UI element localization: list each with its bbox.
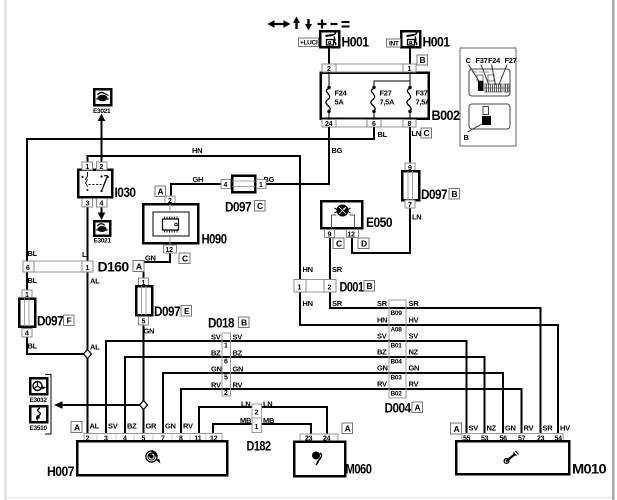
svg-text:D097: D097 bbox=[421, 187, 447, 202]
svg-text:H001: H001 bbox=[342, 35, 370, 50]
svg-text:4: 4 bbox=[100, 201, 104, 208]
B002 internal link pin2 to fuse F24 bbox=[328, 72, 330, 86]
svg-text:GN: GN bbox=[377, 364, 388, 373]
svg-text:BZ: BZ bbox=[233, 349, 243, 358]
svg-text:GN: GN bbox=[505, 424, 516, 433]
wire SV H007-3 to M010-55 bbox=[106, 341, 467, 433]
svg-text:GR: GR bbox=[146, 422, 158, 431]
svg-text:H090: H090 bbox=[202, 232, 227, 247]
svg-text:B: B bbox=[452, 189, 458, 199]
svg-text:BZ: BZ bbox=[211, 349, 221, 358]
wire arrow I030-4 to ground E3021 lower bbox=[100, 207, 102, 213]
wire SR E050-9 to D001-2 bbox=[329, 237, 331, 279]
svg-text:RV: RV bbox=[377, 380, 387, 389]
buzzer M060 bbox=[294, 434, 345, 476]
svg-text:GN: GN bbox=[145, 254, 156, 263]
D182 wire labels bbox=[240, 400, 275, 426]
connector D004 (inline 6-way) bbox=[389, 300, 406, 398]
svg-text:SR: SR bbox=[409, 299, 420, 308]
svg-text:SV: SV bbox=[211, 333, 221, 342]
svg-text:2: 2 bbox=[224, 390, 228, 397]
fuse F27 7,5A bbox=[371, 86, 395, 113]
svg-text:B: B bbox=[464, 133, 470, 142]
wire GN H090-12 to D097E-1 bbox=[144, 252, 171, 278]
svg-text:GN: GN bbox=[409, 364, 420, 373]
ignition switch M010 bbox=[456, 434, 569, 475]
svg-text:C: C bbox=[424, 128, 430, 138]
svg-text:MB: MB bbox=[240, 416, 252, 425]
svg-text:F27: F27 bbox=[380, 89, 392, 98]
ground E3021 upper bbox=[93, 89, 111, 115]
tag C (D097C) bbox=[255, 201, 266, 212]
svg-text:LN: LN bbox=[263, 400, 272, 409]
svg-text:C: C bbox=[182, 254, 188, 264]
control unit H090 bbox=[143, 196, 198, 254]
svg-text:B04: B04 bbox=[391, 359, 403, 366]
svg-text:RV: RV bbox=[409, 380, 419, 389]
wire GN/GR D097E-5 to H007-5 bbox=[142, 325, 144, 433]
svg-text:SV: SV bbox=[469, 424, 479, 433]
wire elbow I030-1 to HN junction bbox=[88, 156, 102, 162]
svg-text:B01: B01 bbox=[391, 343, 403, 350]
svg-text:E3510: E3510 bbox=[30, 425, 48, 432]
svg-text:SV: SV bbox=[377, 332, 387, 341]
svg-text:B: B bbox=[420, 55, 426, 65]
B002 internal link pin1 to fuses F37/F27 bbox=[374, 72, 410, 86]
svg-text:L: L bbox=[82, 250, 87, 259]
svg-text:F37: F37 bbox=[476, 56, 488, 65]
svg-text:D001: D001 bbox=[340, 280, 365, 295]
fuse F24 5A bbox=[326, 86, 348, 113]
svg-text:B02: B02 bbox=[391, 391, 403, 398]
label INT bbox=[387, 39, 401, 47]
earth group bracket bbox=[45, 375, 51, 435]
label +LUCI bbox=[299, 38, 319, 47]
D004 wire labels bbox=[377, 299, 419, 389]
svg-text:AL: AL bbox=[90, 422, 100, 431]
svg-text:SR: SR bbox=[332, 265, 343, 274]
svg-text:A: A bbox=[415, 403, 421, 413]
svg-text:D: D bbox=[361, 239, 367, 249]
svg-text:A: A bbox=[345, 424, 351, 434]
wire HN junction to D001-1 bbox=[102, 156, 301, 279]
tag A (M060) bbox=[342, 423, 353, 434]
svg-text:A: A bbox=[454, 424, 460, 434]
B002 internal links fuse bottoms to pins 24,6,8 bbox=[329, 113, 410, 120]
wire GN H007-7 to M010-56 bbox=[163, 373, 503, 433]
page border bottom bbox=[6, 497, 612, 499]
svg-text:SV: SV bbox=[409, 332, 419, 341]
ground E3021 lower bbox=[94, 221, 112, 245]
svg-text:H001: H001 bbox=[423, 35, 451, 50]
wire L I030-3 to D160-1 bbox=[86, 207, 88, 261]
svg-text:D097: D097 bbox=[154, 304, 180, 319]
svg-text:HN: HN bbox=[303, 265, 313, 274]
svg-text:LN: LN bbox=[412, 129, 421, 138]
H007 wire labels bbox=[90, 422, 193, 431]
tag C (H090 pin 12) bbox=[179, 253, 190, 264]
switch H001 (INT) bbox=[401, 31, 420, 47]
connector D001 bbox=[294, 280, 336, 293]
svg-text:BL: BL bbox=[28, 249, 38, 258]
relay/switch I030 bbox=[78, 162, 112, 208]
fuse box B002 bbox=[321, 64, 429, 128]
connector D182 (2-way) bbox=[252, 404, 262, 433]
svg-text:E050: E050 bbox=[366, 215, 392, 230]
connector D097 C bbox=[221, 176, 266, 193]
tag B (B002 top) bbox=[417, 55, 428, 65]
wire H001-left to B002 pin 2 bbox=[328, 47, 330, 64]
svg-text:E3021: E3021 bbox=[93, 108, 111, 115]
wire LN E050-12 to D097B-7 bbox=[352, 208, 410, 253]
svg-text:8: 8 bbox=[408, 121, 412, 128]
svg-text:F24: F24 bbox=[335, 89, 348, 98]
svg-text:BG: BG bbox=[332, 146, 343, 155]
svg-text:5: 5 bbox=[224, 375, 228, 382]
tag B (D018) bbox=[239, 317, 250, 328]
svg-text:HN: HN bbox=[192, 146, 202, 155]
svg-text:A: A bbox=[158, 187, 164, 197]
svg-text:B002: B002 bbox=[432, 108, 460, 123]
connector D097 F bbox=[19, 290, 35, 338]
wire RV H007-8 to M010-57 bbox=[181, 389, 522, 433]
svg-text:BL: BL bbox=[28, 342, 38, 351]
svg-text:1: 1 bbox=[255, 424, 259, 431]
svg-text:1: 1 bbox=[86, 164, 90, 171]
svg-text:HV: HV bbox=[409, 316, 419, 325]
tag B (D097B) bbox=[449, 189, 460, 200]
tag F (D097F) bbox=[64, 315, 75, 326]
svg-text:GN: GN bbox=[165, 422, 176, 431]
svg-text:GN: GN bbox=[233, 365, 244, 374]
D018 wire labels bbox=[211, 333, 243, 390]
svg-text:3: 3 bbox=[86, 201, 90, 208]
svg-text:NZ: NZ bbox=[487, 424, 497, 433]
wire HN/HV D001-1 to M010-54 bbox=[300, 292, 558, 433]
svg-text:4: 4 bbox=[25, 331, 29, 338]
svg-text:4: 4 bbox=[224, 182, 228, 189]
svg-text:HV: HV bbox=[560, 424, 570, 433]
svg-text:1: 1 bbox=[408, 66, 412, 73]
wire LN B002-8 to D097B-9 bbox=[409, 127, 411, 163]
svg-text:I030: I030 bbox=[115, 185, 136, 200]
svg-text:1: 1 bbox=[298, 284, 302, 291]
connector D160 bbox=[23, 261, 93, 272]
svg-text:AL: AL bbox=[90, 343, 100, 352]
svg-text:RV: RV bbox=[233, 381, 243, 390]
wire splice to earth points (left arrow) bbox=[60, 404, 144, 406]
svg-text:B: B bbox=[367, 281, 373, 291]
tag E (D097E) bbox=[181, 306, 192, 317]
svg-text:F27: F27 bbox=[505, 56, 517, 65]
svg-text:GN: GN bbox=[211, 365, 222, 374]
wire BL B002-6 to bus to D160-6 bbox=[27, 127, 374, 261]
wire BL D097F-4 to splice bbox=[27, 337, 88, 354]
svg-text:A: A bbox=[74, 422, 80, 432]
wire BZ/NZ H007-4 to M010-53 bbox=[125, 357, 485, 433]
svg-text:SR: SR bbox=[377, 299, 388, 308]
connector D097 E bbox=[136, 278, 152, 326]
svg-text:2: 2 bbox=[327, 66, 331, 73]
tag A (D160) bbox=[133, 261, 144, 272]
svg-text:F: F bbox=[67, 316, 72, 326]
svg-text:LN: LN bbox=[412, 213, 421, 222]
connector D018 (inline 4-way) bbox=[222, 333, 231, 397]
svg-text:D097: D097 bbox=[225, 200, 251, 215]
svg-text:BL: BL bbox=[28, 276, 38, 285]
svg-text:HN: HN bbox=[377, 316, 387, 325]
tag A (M010) bbox=[451, 423, 462, 434]
fuse F37 7,5A bbox=[407, 86, 431, 113]
svg-text:1: 1 bbox=[86, 265, 90, 272]
wire BL D160-6 to D097F-1 bbox=[26, 272, 28, 290]
svg-text:6: 6 bbox=[26, 265, 30, 272]
svg-text:A08: A08 bbox=[391, 327, 403, 334]
svg-text:B03: B03 bbox=[391, 375, 403, 382]
svg-text:5: 5 bbox=[142, 319, 146, 326]
svg-text:D004: D004 bbox=[385, 401, 412, 416]
svg-text:RV: RV bbox=[524, 424, 534, 433]
wire I030-2 to ground E3021 with up arrow bbox=[100, 119, 102, 162]
svg-text:B: B bbox=[241, 318, 247, 328]
page border right bbox=[612, 0, 615, 500]
wire SR D001-2 to M010-23 bbox=[330, 292, 541, 433]
svg-text:SV: SV bbox=[108, 422, 118, 431]
svg-text:INT: INT bbox=[389, 40, 399, 47]
switch H001 (exterior lights) bbox=[320, 31, 339, 47]
svg-text:5A: 5A bbox=[335, 98, 345, 107]
svg-text:H007: H007 bbox=[47, 464, 74, 479]
svg-text:C: C bbox=[257, 201, 263, 211]
tag C (E050 pin 9) bbox=[333, 238, 344, 249]
svg-text:GH: GH bbox=[193, 175, 204, 184]
svg-text:2: 2 bbox=[100, 164, 104, 171]
tag C (B002 bottom) bbox=[421, 128, 432, 138]
tag D (E050 pin 12) bbox=[358, 238, 369, 249]
ground E3032 bbox=[30, 378, 48, 404]
svg-text:7,5A: 7,5A bbox=[416, 98, 432, 107]
svg-text:E: E bbox=[184, 306, 190, 316]
svg-text:6: 6 bbox=[224, 359, 228, 366]
svg-text:D097: D097 bbox=[37, 314, 63, 329]
svg-text:6: 6 bbox=[372, 121, 376, 128]
svg-text:RV: RV bbox=[211, 381, 221, 390]
wire LN H007-11 to D182-2 to M060-24 bbox=[199, 407, 327, 434]
svg-text:BZ: BZ bbox=[377, 348, 387, 357]
symbol legend arrows top bbox=[268, 17, 350, 31]
svg-text:MB: MB bbox=[263, 416, 275, 425]
svg-text:F24: F24 bbox=[488, 56, 501, 65]
svg-text:D018: D018 bbox=[208, 316, 235, 331]
wire H001-right to B002 pin 1 bbox=[409, 47, 411, 64]
svg-text:C: C bbox=[336, 239, 342, 249]
svg-text:24: 24 bbox=[325, 121, 333, 128]
svg-text:RV: RV bbox=[183, 422, 193, 431]
svg-text:2: 2 bbox=[328, 284, 332, 291]
svg-text:LN: LN bbox=[241, 400, 250, 409]
svg-text:BL: BL bbox=[378, 130, 388, 139]
wire AL D160-1 to H007-2 bbox=[86, 272, 88, 433]
svg-text:SR: SR bbox=[332, 299, 343, 308]
svg-text:1: 1 bbox=[259, 182, 263, 189]
fusebox location inset bbox=[460, 48, 517, 146]
svg-text:BZ: BZ bbox=[127, 422, 137, 431]
svg-text:7: 7 bbox=[408, 202, 412, 209]
svg-text:B09: B09 bbox=[391, 310, 403, 317]
svg-text:E3021: E3021 bbox=[94, 238, 112, 245]
svg-text:GN: GN bbox=[144, 327, 155, 336]
svg-text:D182: D182 bbox=[247, 439, 271, 454]
svg-text:SR: SR bbox=[543, 424, 554, 433]
svg-text:2: 2 bbox=[255, 410, 259, 417]
svg-text:A: A bbox=[136, 261, 142, 271]
M010 wire labels bbox=[469, 424, 571, 433]
connector D097 B bbox=[402, 163, 419, 209]
tag A (H007) bbox=[71, 422, 82, 433]
svg-text:F37: F37 bbox=[416, 89, 428, 98]
splice junction diamond on AL wire bbox=[84, 350, 92, 359]
tag B (D001) bbox=[364, 281, 375, 292]
tag A (D004) bbox=[412, 402, 423, 413]
interior lamp E050 bbox=[321, 201, 362, 238]
wire BG B002-24 to D097C to H090-2 bbox=[171, 127, 329, 196]
horn H007 bbox=[77, 434, 227, 476]
svg-text:NZ: NZ bbox=[409, 348, 419, 357]
svg-text:1: 1 bbox=[224, 343, 228, 350]
svg-text:HN: HN bbox=[303, 299, 313, 308]
tag A (H090 pin 2) bbox=[155, 186, 166, 197]
svg-text:12: 12 bbox=[348, 231, 356, 238]
svg-text:9: 9 bbox=[328, 231, 332, 238]
svg-text:D160: D160 bbox=[98, 260, 129, 275]
svg-text:M010: M010 bbox=[572, 462, 606, 477]
splice junction diamond on GN wire bbox=[140, 401, 148, 410]
page border left bbox=[5, 0, 7, 500]
svg-text:M060: M060 bbox=[346, 462, 372, 477]
svg-text:E3032: E3032 bbox=[30, 397, 48, 404]
svg-text:AL: AL bbox=[90, 277, 100, 286]
svg-text:C: C bbox=[466, 56, 472, 65]
svg-text:+LUCI: +LUCI bbox=[300, 40, 318, 47]
svg-text:7,5A: 7,5A bbox=[380, 98, 396, 107]
wire MB H007-12 to D182-1 to M060-23 bbox=[213, 424, 311, 434]
svg-text:12: 12 bbox=[166, 247, 174, 254]
ground E3510 bbox=[30, 406, 48, 432]
svg-text:SV: SV bbox=[233, 333, 243, 342]
